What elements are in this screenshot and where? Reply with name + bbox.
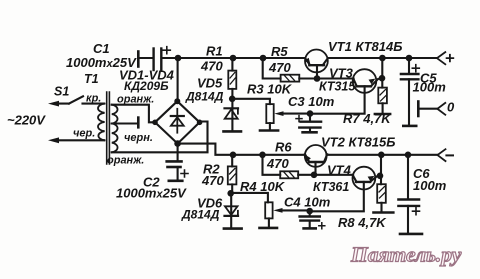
wire zener node to R3 (232, 99, 270, 104)
svg-text:VT3: VT3 (329, 66, 354, 81)
resistor R7 (379, 55, 386, 62)
svg-text:кр.: кр. (86, 93, 101, 105)
svg-text:Д814Д: Д814Д (185, 90, 224, 104)
svg-text:чер.: чер. (73, 128, 95, 140)
resistor R1 (230, 55, 237, 62)
svg-text:S1: S1 (54, 85, 69, 99)
capacitor C4 (306, 208, 313, 215)
capacitor C5 (406, 55, 413, 62)
wire secondary bottom tap (112, 122, 208, 153)
transistor VT4 (353, 167, 376, 190)
svg-text:R6: R6 (275, 140, 292, 155)
svg-text:КТ361: КТ361 (313, 180, 349, 194)
transformer T1 primary (98, 104, 105, 141)
svg-text:100m: 100m (413, 80, 447, 95)
svg-text:черн.: черн. (124, 132, 153, 144)
trimmer R3 (266, 104, 273, 123)
zener VD5 (231, 99, 233, 131)
transformer T1 secondary (112, 105, 118, 124)
wire top rail (139, 57, 153, 59)
svg-text:1000mx25V: 1000mx25V (116, 186, 187, 201)
svg-text:C1: C1 (93, 41, 110, 56)
svg-text:470: 470 (266, 156, 289, 171)
resistor R5 (260, 55, 267, 62)
zener VD6 (230, 193, 232, 228)
node center tap terminal (137, 118, 140, 128)
capacitor C1 (152, 49, 154, 71)
switch S1 (58, 96, 104, 103)
svg-text:VT2 КТ815Б: VT2 КТ815Б (321, 135, 395, 150)
wire R3 wiper (281, 113, 310, 115)
wire secondary center tap (112, 122, 138, 124)
transistor VT2 (305, 145, 327, 167)
svg-text:VT1 КТ814Б: VT1 КТ814Б (328, 39, 402, 54)
svg-text:R4 10K: R4 10K (240, 179, 286, 194)
resistor R2 (230, 152, 237, 159)
svg-text:R5: R5 (271, 44, 288, 59)
svg-text:оранж.: оранж. (107, 155, 144, 167)
capacitor C2 (177, 144, 179, 160)
ground C3 (303, 131, 317, 134)
svg-text:R1: R1 (206, 44, 223, 59)
wire primary bottom (58, 139, 104, 141)
rectifier bridge VD1-VD4 (155, 101, 200, 143)
wire secondary top tap (112, 105, 153, 123)
terminal minus (438, 149, 446, 161)
terminal zero (417, 102, 420, 117)
ground R3 (260, 129, 278, 132)
svg-text:T1: T1 (84, 72, 99, 86)
node bridge+ (175, 55, 182, 62)
svg-text:КТ315: КТ315 (319, 80, 356, 94)
ground C5 (403, 125, 416, 128)
svg-text:КД209Б: КД209Б (124, 79, 169, 93)
wire R4 wiper (280, 209, 310, 211)
transistor VT1 (305, 50, 328, 73)
trimmer R4 (265, 202, 272, 218)
svg-text:Паятель.ру: Паятель.ру (350, 243, 462, 267)
ground R8 (374, 211, 394, 214)
ground R7 (375, 113, 390, 116)
ground C6 (400, 233, 422, 236)
ground VD5 (224, 130, 242, 133)
svg-text:оранж.: оранж. (117, 94, 154, 106)
resistor R6 (259, 152, 266, 159)
transformer core (107, 92, 110, 164)
capacitor C6 (405, 152, 412, 159)
transistor VT3 (353, 69, 377, 93)
resistor R8 (378, 152, 385, 159)
diode inside bridge (176, 109, 178, 133)
svg-text:C3 10m: C3 10m (288, 94, 335, 109)
svg-text:100m: 100m (413, 178, 447, 193)
wire minus from bridge bottom (178, 144, 305, 155)
svg-text:470: 470 (268, 60, 291, 75)
svg-text:470: 470 (200, 59, 223, 74)
ground C4 (304, 227, 316, 230)
svg-text:~220V: ~220V (7, 113, 46, 128)
wire lower rail (327, 154, 438, 156)
svg-text:R3 10K: R3 10K (247, 82, 293, 97)
svg-text:R7 4,7K: R7 4,7K (343, 111, 392, 126)
svg-text:Д814Д: Д814Д (181, 208, 220, 222)
svg-text:C4 10m: C4 10m (284, 195, 331, 210)
svg-text:R8 4,7K: R8 4,7K (338, 215, 387, 230)
capacitor C3 (307, 110, 314, 117)
ground VD6 (224, 227, 242, 230)
ground R4 (260, 227, 278, 230)
svg-text:470: 470 (201, 173, 224, 188)
svg-text:VT4: VT4 (327, 163, 352, 178)
terminal plus (437, 52, 445, 64)
svg-text:VD5: VD5 (197, 76, 223, 91)
wire VD6 node to R4 (231, 193, 268, 202)
wire bridge top (177, 58, 179, 101)
svg-text:0: 0 (447, 100, 455, 115)
